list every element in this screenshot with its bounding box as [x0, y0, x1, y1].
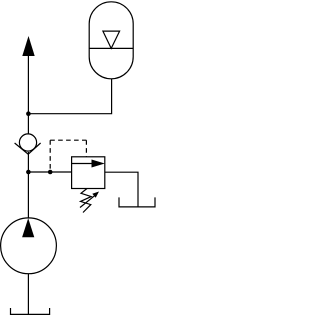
relief valve spring	[81, 189, 92, 213]
relief valve RV1 body	[72, 157, 105, 189]
wire main vertical upper	[27, 55, 29, 134]
tank T1	[119, 197, 155, 207]
pump P1 flow triangle	[22, 218, 34, 237]
check valve V1 circle	[19, 134, 36, 151]
wire to accumulator	[28, 79, 111, 114]
pilot line dashed horizontal	[50, 139, 86, 141]
relief valve adjustment arrow	[80, 196, 95, 208]
accumulator gas separator line	[89, 47, 133, 49]
wire main vertical lower	[27, 152, 29, 219]
node junction upper	[26, 111, 31, 116]
node pilot tap	[48, 170, 53, 175]
accumulator A1	[89, 2, 133, 79]
wire pump suction	[27, 274, 29, 315]
flow arrow to system	[22, 36, 34, 56]
check valve V1 seat	[15, 143, 41, 154]
accumulator gas triangle	[103, 31, 120, 48]
relief valve flow arrow	[72, 163, 93, 165]
wire relief valve outlet	[105, 172, 138, 207]
node junction lower	[26, 170, 31, 175]
pilot line dashed vertical to valve	[85, 140, 87, 157]
tank T2	[11, 308, 50, 314]
pilot line dashed vertical from tap	[49, 140, 51, 170]
pump P1 circle	[1, 218, 57, 274]
wire to relief valve	[28, 171, 71, 173]
